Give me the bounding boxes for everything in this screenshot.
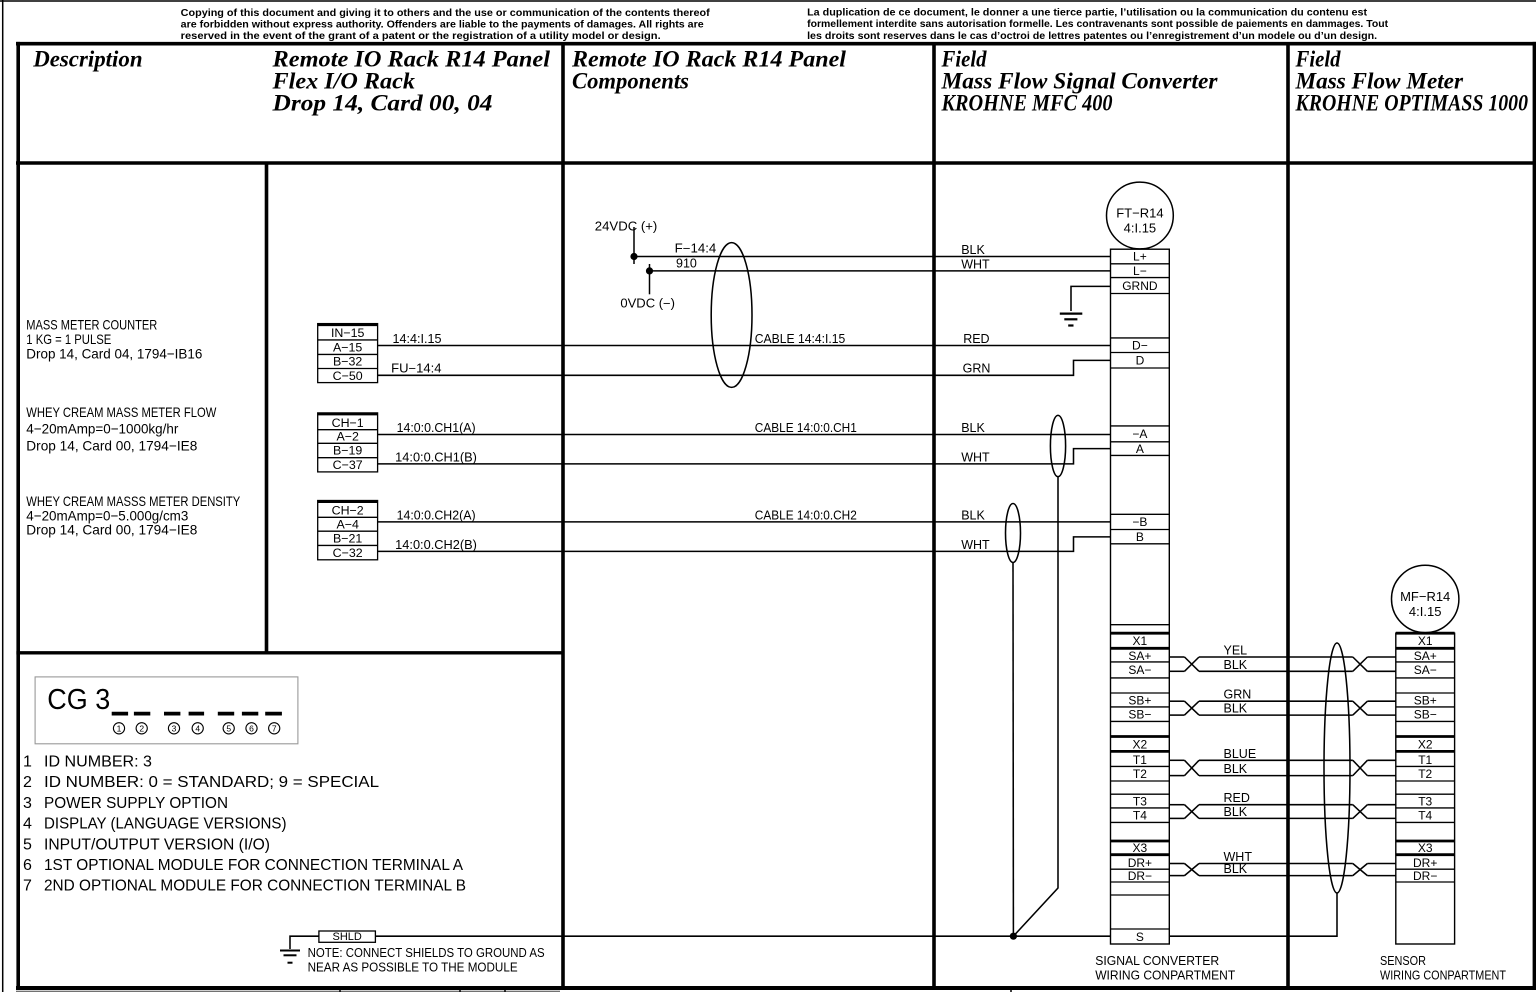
svg-text:BLK: BLK <box>961 243 985 257</box>
wire pair T3/T4 RED/BLK <box>1169 791 1396 819</box>
svg-text:CG 3: CG 3 <box>47 684 110 716</box>
svg-text:B−32: B−32 <box>333 355 362 369</box>
svg-text:CABLE 14:0:0.CH2: CABLE 14:0:0.CH2 <box>755 508 857 522</box>
svg-text:DR−: DR− <box>1128 869 1152 883</box>
svg-text:BLK: BLK <box>1224 658 1248 672</box>
description: mass meter counter <box>26 317 202 362</box>
svg-text:X2: X2 <box>1133 737 1148 751</box>
svg-text:are forbidden without express: are forbidden without express authority.… <box>181 20 704 31</box>
svg-text:14:4:I.15: 14:4:I.15 <box>393 332 442 346</box>
terminal block CH-2 (1794-IE8 card 00) <box>318 501 378 560</box>
svg-text:14:0:0.CH2(B): 14:0:0.CH2(B) <box>395 538 477 552</box>
svg-text:6: 6 <box>23 857 32 874</box>
header column titles <box>32 47 1528 116</box>
svg-text:−A: −A <box>1132 427 1147 441</box>
terminal block CH-1 (1794-IE8 card 00) <box>318 413 378 472</box>
junction 24VDC <box>630 253 637 260</box>
svg-text:5: 5 <box>226 723 231 733</box>
svg-text:INPUT/OUTPUT VERSION (I/O): INPUT/OUTPUT VERSION (I/O) <box>44 836 270 853</box>
svg-text:X3: X3 <box>1133 841 1148 855</box>
wire pair SA YEL/BLK <box>1169 644 1396 672</box>
svg-text:6: 6 <box>249 723 254 733</box>
svg-text:SB+: SB+ <box>1128 693 1151 707</box>
svg-text:24VDC (+): 24VDC (+) <box>595 219 658 233</box>
svg-text:BLK: BLK <box>961 421 985 435</box>
svg-text:YEL: YEL <box>1224 644 1248 658</box>
svg-text:1: 1 <box>23 754 32 771</box>
wire 14:0:0.CH1(A) BLK to -A <box>378 421 1111 435</box>
wire 14:4:I.15 RED to D- <box>378 332 1111 346</box>
node 0VDC (-) <box>620 264 675 311</box>
svg-text:CH−2: CH−2 <box>332 504 364 518</box>
wire CH1 screen drop <box>1013 477 1058 937</box>
wire CH2 screen drop <box>1012 563 1014 937</box>
svg-text:SHLD: SHLD <box>333 931 362 943</box>
svg-text:SENSOR: SENSOR <box>1380 954 1426 968</box>
svg-text:ID NUMBER: 3: ID NUMBER: 3 <box>44 754 152 771</box>
svg-text:GRN: GRN <box>1224 688 1252 702</box>
wire FU-14:4 GRN to D <box>378 360 1111 375</box>
description: whey cream mass meter density <box>26 493 241 538</box>
svg-text:WIRING CONPARTMENT: WIRING CONPARTMENT <box>1380 969 1506 983</box>
svg-text:B−21: B−21 <box>333 532 362 546</box>
svg-text:BLK: BLK <box>1224 702 1248 716</box>
svg-text:F−14:4: F−14:4 <box>675 241 717 255</box>
svg-text:BLK: BLK <box>1224 805 1248 819</box>
svg-text:DISPLAY (LANGUAGE VERSIONS): DISPLAY (LANGUAGE VERSIONS) <box>44 816 287 833</box>
svg-text:A−2: A−2 <box>336 430 359 444</box>
wire pair DR WHT/BLK <box>1169 850 1396 876</box>
svg-text:NEAR AS POSSIBLE TO THE MODULE: NEAR AS POSSIBLE TO THE MODULE <box>308 960 518 975</box>
junction 0VDC <box>646 267 653 274</box>
svg-text:X1: X1 <box>1133 634 1148 648</box>
svg-text:RED: RED <box>1224 791 1250 805</box>
cable screen 14:4:I.15 <box>711 243 752 388</box>
CG3 legend list <box>23 754 466 895</box>
svg-text:1ST OPTIONAL MODULE FOR CONNEC: 1ST OPTIONAL MODULE FOR CONNECTION TERMI… <box>44 857 463 874</box>
wire S to sensor cable screen <box>1169 893 1337 936</box>
svg-text:WHEY CREAM MASS METER FLOW: WHEY CREAM MASS METER FLOW <box>26 404 217 420</box>
svg-text:SB−: SB− <box>1414 708 1437 722</box>
svg-text:0VDC (−): 0VDC (−) <box>620 297 675 311</box>
ground at shield <box>280 936 319 963</box>
svg-text:C−37: C−37 <box>333 458 363 472</box>
svg-text:SA+: SA+ <box>1414 649 1437 663</box>
cable screen CH1 <box>1050 415 1065 476</box>
junction shield <box>1010 933 1017 940</box>
svg-text:SA+: SA+ <box>1128 649 1151 663</box>
svg-text:FU−14:4: FU−14:4 <box>391 362 441 376</box>
label sensor wiring compartment <box>1380 954 1506 983</box>
svg-text:X1: X1 <box>1418 634 1433 648</box>
svg-text:La duplication de ce document,: La duplication de ce document, le donner… <box>807 7 1368 18</box>
svg-text:T1: T1 <box>1418 753 1432 767</box>
svg-text:T4: T4 <box>1133 809 1147 823</box>
svg-text:4:I.15: 4:I.15 <box>1409 604 1442 619</box>
svg-text:3: 3 <box>23 795 32 812</box>
svg-text:Drop 14, Card 00, 1794−IE8: Drop 14, Card 00, 1794−IE8 <box>26 522 197 538</box>
svg-text:Drop 14, Card 00, 1794−IE8: Drop 14, Card 00, 1794−IE8 <box>26 437 197 453</box>
svg-text:1: 1 <box>117 723 122 733</box>
svg-text:FT−R14: FT−R14 <box>1116 205 1163 220</box>
svg-text:A−4: A−4 <box>336 518 359 532</box>
svg-text:B: B <box>1136 530 1144 544</box>
svg-text:B−19: B−19 <box>333 444 362 458</box>
svg-text:Components: Components <box>572 69 689 94</box>
svg-text:WIRING CONPARTMENT: WIRING CONPARTMENT <box>1095 969 1235 983</box>
wire shield S left <box>375 935 1110 937</box>
svg-text:4: 4 <box>23 816 32 833</box>
label signal converter wiring compartment <box>1095 954 1235 983</box>
svg-text:MF−R14: MF−R14 <box>1400 589 1450 604</box>
svg-text:KROHNE OPTIMASS 1000: KROHNE OPTIMASS 1000 <box>1295 91 1529 116</box>
svg-text:D−: D− <box>1132 339 1148 353</box>
svg-text:X2: X2 <box>1418 737 1433 751</box>
disclaimer french <box>807 7 1389 41</box>
wire 14:0:0.CH2(A) BLK to -B <box>378 508 1111 522</box>
svg-text:les droits sont reserves dans: les droits sont reserves dans le cas d’o… <box>807 31 1377 42</box>
svg-text:7: 7 <box>272 723 277 733</box>
wire 14:0:0.CH1(B) WHT to A <box>378 449 1111 465</box>
svg-text:GRN: GRN <box>963 362 991 376</box>
svg-text:CABLE 14:0:0.CH1: CABLE 14:0:0.CH1 <box>755 421 857 435</box>
svg-text:CH−1: CH−1 <box>332 416 364 430</box>
svg-text:7: 7 <box>23 878 32 895</box>
svg-text:A−15: A−15 <box>333 340 362 354</box>
svg-text:2: 2 <box>139 723 144 733</box>
svg-text:POWER SUPPLY OPTION: POWER SUPPLY OPTION <box>44 795 228 812</box>
svg-text:Drop 14, Card 04, 1794−IB16: Drop 14, Card 04, 1794−IB16 <box>26 345 202 361</box>
svg-text:T2: T2 <box>1418 767 1432 781</box>
description: whey cream mass meter flow <box>26 404 217 453</box>
disclaimer english <box>181 8 711 42</box>
sensor cable screen <box>1324 643 1350 893</box>
svg-text:SA−: SA− <box>1128 663 1151 677</box>
svg-text:L+: L+ <box>1133 250 1147 264</box>
svg-text:BLK: BLK <box>961 508 985 522</box>
wire 910 WHT to L- <box>650 256 1111 271</box>
svg-text:2ND OPTIONAL MODULE FOR CONNEC: 2ND OPTIONAL MODULE FOR CONNECTION TERMI… <box>44 878 466 895</box>
svg-text:reserved in the event of the g: reserved in the event of the grant of a … <box>181 31 661 42</box>
ground at GRND terminal <box>1060 286 1111 325</box>
svg-text:Copying of this document and g: Copying of this document and giving it t… <box>181 8 711 19</box>
wire pair T1/T2 BLUE/BLK <box>1169 747 1396 776</box>
bottom tick marks <box>16 990 1011 992</box>
note text <box>308 945 545 975</box>
svg-text:4:I.15: 4:I.15 <box>1124 221 1157 236</box>
svg-text:GRND: GRND <box>1122 279 1158 293</box>
svg-text:4−20mAmp=0−1000kg/hr: 4−20mAmp=0−1000kg/hr <box>26 421 178 437</box>
svg-text:Drop 14, Card 00, 04: Drop 14, Card 00, 04 <box>271 91 492 116</box>
svg-text:A: A <box>1136 442 1144 456</box>
svg-text:D: D <box>1136 354 1145 368</box>
svg-text:WHT: WHT <box>961 538 990 552</box>
svg-text:14:0:0.CH1(B): 14:0:0.CH1(B) <box>395 450 477 464</box>
svg-text:C−50: C−50 <box>333 369 363 383</box>
svg-text:−B: −B <box>1132 515 1147 529</box>
svg-text:14:0:0.CH2(A): 14:0:0.CH2(A) <box>397 508 476 522</box>
svg-text:SIGNAL CONVERTER: SIGNAL CONVERTER <box>1095 954 1219 968</box>
svg-text:BLK: BLK <box>1224 862 1248 876</box>
SHLD box <box>319 931 376 943</box>
sensor terminal block MF-R14 <box>1396 633 1455 944</box>
svg-text:X3: X3 <box>1418 841 1433 855</box>
CG3 model code box <box>35 677 298 744</box>
svg-text:SB+: SB+ <box>1414 693 1437 707</box>
balloon MF-R14 4:I.15 <box>1392 565 1459 632</box>
svg-text:SB−: SB− <box>1128 708 1151 722</box>
wire pair SB GRN/BLK <box>1169 688 1396 716</box>
svg-text:5: 5 <box>23 836 32 853</box>
svg-text:T3: T3 <box>1418 794 1432 808</box>
svg-text:2: 2 <box>23 774 32 791</box>
svg-text:C−32: C−32 <box>333 546 363 560</box>
terminal block IN-15 (1794-IB16 card 04) <box>318 324 378 383</box>
svg-text:14:0:0.CH1(A): 14:0:0.CH1(A) <box>397 421 476 435</box>
svg-text:KROHNE MFC 400: KROHNE MFC 400 <box>941 91 1113 116</box>
svg-text:T3: T3 <box>1133 794 1147 808</box>
svg-text:WHT: WHT <box>961 450 990 464</box>
svg-text:ID NUMBER: 0 = STANDARD; 9 = S: ID NUMBER: 0 = STANDARD; 9 = SPECIAL <box>44 774 379 791</box>
svg-text:RED: RED <box>963 332 989 346</box>
balloon FT-R14 4:I.15 <box>1107 182 1174 249</box>
signal converter terminal block FT-R14 <box>1111 249 1170 944</box>
svg-text:DR−: DR− <box>1413 869 1437 883</box>
svg-text:BLUE: BLUE <box>1224 747 1257 761</box>
cable screen CH2 <box>1006 504 1021 563</box>
svg-text:3: 3 <box>172 723 177 733</box>
svg-text:4: 4 <box>195 723 200 733</box>
svg-text:CABLE 14:4:I.15: CABLE 14:4:I.15 <box>755 332 845 346</box>
wire 14:0:0.CH2(B) WHT to B <box>378 537 1111 552</box>
svg-text:IN−15: IN−15 <box>331 326 365 340</box>
svg-text:L−: L− <box>1133 264 1147 278</box>
svg-text:Description: Description <box>32 47 142 72</box>
svg-text:910: 910 <box>676 256 697 270</box>
node 24VDC (+) <box>595 219 658 264</box>
svg-text:NOTE: CONNECT SHIELDS TO GROUN: NOTE: CONNECT SHIELDS TO GROUND AS <box>308 945 545 960</box>
svg-text:T4: T4 <box>1418 809 1432 823</box>
svg-text:S: S <box>1136 930 1144 944</box>
svg-text:WHT: WHT <box>961 257 990 271</box>
wire F-14:4 BLK to L+ <box>634 241 1111 257</box>
svg-text:BLK: BLK <box>1224 762 1248 776</box>
svg-text:formellement interdite sans au: formellement interdite sans autorisation… <box>807 19 1389 30</box>
svg-text:T2: T2 <box>1133 767 1147 781</box>
svg-text:SA−: SA− <box>1414 663 1437 677</box>
svg-text:T1: T1 <box>1133 753 1147 767</box>
